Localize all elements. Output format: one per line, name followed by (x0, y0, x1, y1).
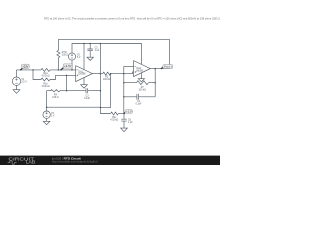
ground below V1 (13, 90, 20, 94)
wire op-amp2 V+ stub done above ; V- stub (140, 73, 142, 79)
resistor R7 (136, 81, 148, 85)
component labels (21, 48, 146, 125)
wire left feedback vertical (123, 66, 125, 113)
wire op-amp1 output (92, 72, 133, 74)
svg-text:5 V: 5 V (77, 57, 81, 59)
svg-text:RTD at 100 ohms is 0C. The cir: RTD at 100 ohms is 0C. The circuit provi… (44, 16, 220, 20)
svg-text:LM358: LM358 (78, 74, 86, 76)
svg-text:1 V: 1 V (51, 115, 55, 117)
wire op-amp1 V+ stub (83, 44, 85, 70)
svg-text:LM358: LM358 (136, 71, 144, 73)
svg-text:+1V: +1V (126, 111, 132, 114)
svg-text:2.5 V: 2.5 V (21, 81, 27, 83)
resistor R1c (111, 112, 119, 115)
wire V2 bottom stem (71, 60, 73, 70)
capacitor C2 plates (87, 49, 93, 51)
svg-text:100 Ω: 100 Ω (62, 54, 68, 56)
capacitor C4 plates (137, 94, 139, 100)
wire bottom feedback row (124, 96, 155, 98)
svg-text:1 uF: 1 uF (128, 122, 133, 124)
wire R4 row (bottom rail) (47, 90, 101, 92)
flag C (Vout net label) (161, 65, 172, 69)
wire V1 top stem (16, 70, 18, 77)
wire op-amp2 output (150, 68, 169, 70)
wire op-amp2 minus input (124, 65, 134, 67)
op-amp OA2 (134, 61, 151, 77)
svg-text:+2.5V: +2.5V (64, 64, 72, 68)
svg-text:4.02 kΩ: 4.02 kΩ (42, 75, 50, 77)
wire op-amp1 V- stub (83, 78, 85, 85)
svg-text:0.1uF: 0.1uF (84, 98, 90, 100)
svg-text:0.1uF: 0.1uF (136, 103, 142, 105)
svg-text:100 kΩ: 100 kΩ (103, 79, 111, 81)
svg-text:Vout: Vout (164, 65, 172, 69)
ground below op-amp1 (81, 85, 88, 88)
resistor R1a (41, 68, 50, 71)
voltage source V2 (68, 53, 75, 60)
wire R7 row (124, 82, 155, 84)
wire split vertical (33, 70, 41, 80)
wire feedback vertical (66, 75, 68, 90)
svg-text:1 uF: 1 uF (95, 50, 100, 52)
wire right feedback vertical (154, 69, 156, 97)
ground below C5 (121, 128, 128, 132)
wire R1c to flag node (118, 113, 124, 115)
svg-text:LAB: LAB (26, 160, 36, 165)
wire staircase from R2 right (100, 74, 110, 114)
svg-text:100 kΩ: 100 kΩ (139, 89, 147, 91)
ground below C2 (87, 57, 93, 60)
flag A (+2.5V net label near V1) (21, 64, 30, 70)
resistor R2 (103, 72, 111, 75)
resistor R4 (51, 90, 60, 92)
capacitor C5 stack below flag node (123, 114, 125, 129)
wire node A horizontal (inverting input rail) (17, 69, 76, 71)
wire RTD branch vertical (57, 39, 59, 70)
flag B (+2.5V net label near OA1) (61, 64, 73, 70)
svg-text:+2.5V: +2.5V (22, 64, 28, 68)
wire V1 bottom stem (16, 85, 18, 89)
wire outer top rail (58, 39, 169, 68)
wire long vertical (supply corner down) (99, 44, 101, 108)
ground below op-amp2 (138, 79, 144, 82)
svg-text:4.02 kΩ: 4.02 kΩ (42, 86, 50, 88)
svg-text:http://circuitlab.com/c/dgmte2: http://circuitlab.com/c/dgmte2c3g6t1f (52, 160, 98, 164)
svg-text:4.02 kΩ: 4.02 kΩ (110, 119, 118, 121)
svg-text:100 Ω: 100 Ω (52, 97, 58, 99)
resistor RTD (57, 50, 60, 57)
ground below V3 (43, 121, 50, 124)
junction dots (20, 43, 162, 115)
wire V3 bottom stem (46, 118, 48, 121)
footer logo waveform (8, 161, 17, 164)
voltage source V3 (43, 111, 50, 118)
capacitor C2 stems (89, 44, 91, 58)
footer bar (0, 156, 220, 165)
resistor R1b (41, 78, 50, 81)
wire V2 top stem and inner rail (72, 44, 141, 65)
wire V3 branch (47, 91, 101, 111)
capacitor C1a plates (86, 88, 88, 93)
voltage source V1 (12, 77, 20, 85)
flag D (net label at R1c node) (124, 110, 132, 114)
wire R1b to op-amp plus input (50, 75, 76, 79)
op-amp OA1 (76, 66, 93, 82)
